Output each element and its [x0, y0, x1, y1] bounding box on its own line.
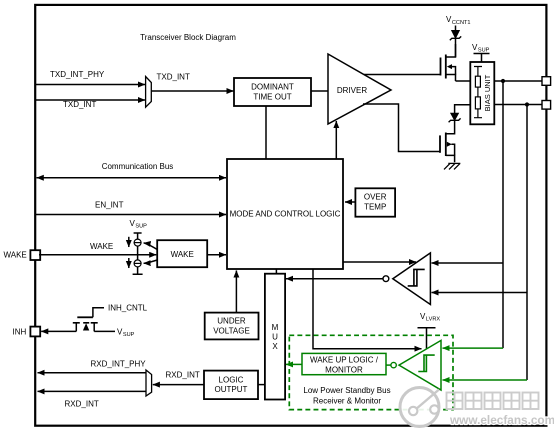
curved control arrow to I2	[144, 260, 158, 263]
svg-text:Low Power Standby Bus: Low Power Standby Bus	[303, 386, 390, 395]
wire mode logic to receiver enable	[343, 261, 416, 263]
zener diode Z1	[450, 31, 461, 58]
block WAKE	[157, 240, 207, 267]
transistor Q1 (high side MOSFET)	[441, 44, 456, 81]
svg-text:INH_CNTL: INH_CNTL	[108, 304, 148, 313]
wire timeout to driver	[311, 90, 328, 92]
label Low Power Standby Bus Receiver & Monitor	[303, 386, 390, 406]
svg-text:Receiver & Monitor: Receiver & Monitor	[313, 396, 381, 405]
block DOMINANT TIME OUT	[234, 78, 311, 106]
svg-text:SUP: SUP	[135, 224, 147, 230]
svg-text:INH: INH	[13, 328, 27, 337]
svg-text:TXD_INT: TXD_INT	[157, 73, 190, 82]
wire CANH to receiver input	[432, 262, 504, 264]
label VSUP (inh)	[117, 327, 135, 338]
watermark logo and text	[400, 388, 554, 428]
svg-text:M: M	[272, 323, 279, 332]
svg-text:UNDER: UNDER	[217, 317, 246, 326]
svg-text:OVER: OVER	[364, 193, 387, 202]
curved control arrow to I1	[144, 243, 158, 250]
svg-text:RXD_INT_PHY: RXD_INT_PHY	[91, 360, 147, 369]
svg-text:DOMINANT: DOMINANT	[251, 83, 294, 92]
svg-text:MODE AND CONTROL LOGIC: MODE AND CONTROL LOGIC	[230, 210, 341, 219]
svg-text:RXD_INT: RXD_INT	[166, 371, 200, 380]
transistor Q2 (low side MOSFET)	[440, 120, 455, 162]
zener diode Z2	[449, 105, 471, 122]
wire under voltage to mode logic	[235, 271, 237, 313]
wire Q1 source to bias unit (CANH)	[456, 80, 471, 82]
current source I1	[134, 239, 141, 246]
svg-text:EN_INT: EN_INT	[95, 201, 124, 210]
block MODE AND CONTROL LOGIC	[227, 159, 343, 269]
svg-text:www.elecfans.com: www.elecfans.com	[449, 413, 554, 427]
pad CANL	[542, 101, 551, 110]
wire timeout to mode logic	[265, 106, 267, 159]
label VLVRX	[420, 312, 440, 323]
node CANH junction	[501, 79, 505, 83]
ground bar below I2	[133, 267, 143, 274]
wire over temp to mode logic	[345, 201, 355, 203]
low power standby dashed box	[289, 335, 453, 409]
TXD merge symbol	[146, 77, 152, 108]
label VSUP (bias unit)	[472, 43, 490, 54]
wire mode logic to mux	[275, 269, 277, 274]
wire EN_INT	[36, 214, 227, 216]
wire receiver output to mux	[286, 278, 383, 280]
node CANL junction	[525, 102, 529, 106]
wire bias unit to CANH pad	[494, 80, 542, 82]
wire logic output to splitter	[153, 384, 204, 386]
wire wake block to mode logic	[207, 254, 226, 256]
resistor R2	[475, 97, 480, 109]
svg-text:Transceiver Block Diagram: Transceiver Block Diagram	[140, 33, 236, 42]
wire between sources	[137, 246, 139, 260]
label VCCNT1	[446, 15, 471, 26]
svg-text:SUP: SUP	[123, 332, 135, 338]
wire TXD_INT_PHY	[36, 84, 146, 86]
block OVER TEMP	[355, 188, 395, 216]
block BIAS UNIT	[470, 62, 494, 124]
block UNDER VOLTAGE	[205, 313, 259, 340]
receiver comparator	[383, 253, 430, 305]
wire transistor to INH pin	[41, 330, 76, 332]
svg-text:U: U	[272, 333, 278, 342]
svg-text:WAKE: WAKE	[171, 250, 194, 259]
wire mode logic down to wakeup comparator	[313, 269, 422, 349]
pin INH	[30, 327, 40, 337]
block WAKE UP LOGIC / MONITOR	[302, 353, 386, 374]
wire RXD_INT_PHY	[38, 372, 147, 374]
pin WAKE	[30, 250, 40, 260]
wire logic output to mux	[258, 384, 265, 386]
wire CANL to receiver input	[432, 292, 528, 294]
wire wakeup logic to mux (green)	[286, 363, 302, 365]
svg-text:Communication Bus: Communication Bus	[102, 162, 174, 171]
pad CANH	[542, 77, 551, 86]
svg-text:BIAS UNIT: BIAS UNIT	[483, 74, 492, 111]
wire CANL to wakeup comparator (green)	[443, 379, 528, 381]
wire VCCNT1 to zener Z1	[455, 26, 457, 31]
wire TXD_INT	[36, 99, 146, 101]
svg-text:MONITOR: MONITOR	[325, 365, 363, 374]
arrow current I1	[128, 237, 130, 247]
wire driver top output to Q1 gate	[364, 74, 441, 76]
svg-text:VOLTAGE: VOLTAGE	[213, 327, 250, 336]
resistor R1	[475, 76, 480, 87]
wire CANH to wakeup comparator (green)	[443, 347, 504, 349]
wire mode logic to driver enable	[335, 121, 337, 159]
wire RXD_INT	[38, 390, 147, 392]
wakeup comparator (green)	[386, 340, 441, 390]
VLVRX terminal bar	[418, 328, 436, 349]
svg-text:LVRX: LVRX	[426, 317, 440, 323]
label VSUP (wake current sources)	[130, 219, 148, 230]
svg-text:TEMP: TEMP	[364, 203, 386, 212]
wire Communication Bus	[37, 177, 227, 179]
VSUP terminal bar	[134, 233, 142, 239]
svg-text:CCNT1: CCNT1	[452, 20, 471, 26]
svg-text:WAKE UP LOGIC /: WAKE UP LOGIC /	[310, 355, 379, 364]
arrow current I2	[128, 258, 130, 268]
svg-text:LOGIC: LOGIC	[219, 375, 244, 384]
svg-text:WAKE: WAKE	[90, 242, 113, 251]
driver amplifier	[328, 54, 391, 124]
svg-text:X: X	[272, 342, 278, 351]
wire bias unit to CANL pad	[494, 104, 542, 106]
svg-text:OUTPUT: OUTPUT	[215, 385, 248, 394]
current source I2	[134, 260, 141, 267]
transistor Q3 (INH switch)	[73, 308, 115, 332]
svg-text:TXD_INT: TXD_INT	[63, 100, 96, 109]
bus wire CANL vertical	[526, 105, 528, 381]
bus wire CANH vertical	[502, 81, 504, 348]
svg-text:DRIVER: DRIVER	[337, 86, 367, 95]
VSUP terminal bar	[474, 54, 490, 63]
wire WAKE pin to wake block	[39, 254, 156, 256]
ground symbol	[444, 163, 460, 169]
wire driver bottom output to Q2 gate	[363, 104, 440, 152]
RXD splitter symbol	[146, 370, 152, 396]
svg-text:RXD_INT: RXD_INT	[65, 400, 99, 409]
block MUX	[265, 274, 285, 400]
block LOGIC OUTPUT	[204, 371, 258, 400]
svg-text:TIME OUT: TIME OUT	[253, 93, 291, 102]
svg-text:TXD_INT_PHY: TXD_INT_PHY	[50, 70, 105, 79]
wire merge to timeout	[151, 90, 233, 92]
svg-text:WAKE: WAKE	[4, 251, 27, 260]
svg-text:SUP: SUP	[478, 48, 490, 54]
